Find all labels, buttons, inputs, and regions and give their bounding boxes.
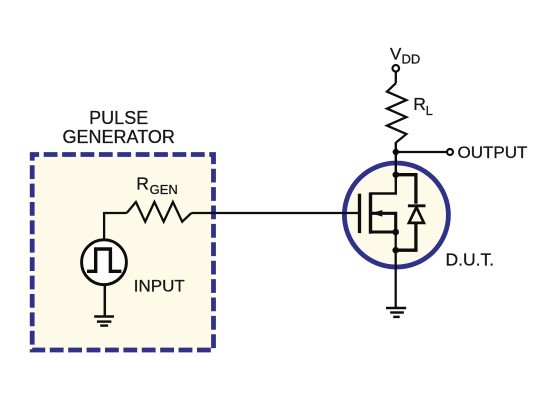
ground (pulse generator) (94, 285, 114, 325)
terminal VDD (393, 65, 400, 72)
transistor DUT gate bar (358, 194, 361, 233)
source lead (371, 230, 396, 233)
wire pulse source to resistor (104, 213, 127, 240)
resistor RGEN (127, 202, 192, 222)
diode cathode bar (408, 204, 426, 207)
wire RGEN to gate (191, 212, 358, 214)
svg-text:GENERATOR: GENERATOR (63, 127, 175, 147)
pulse source V1 (82, 240, 127, 285)
wire VDD to RL (395, 72, 397, 83)
svg-text:OUTPUT: OUTPUT (458, 143, 528, 162)
svg-text:V: V (390, 44, 402, 63)
body lead with arrow (372, 213, 396, 232)
wire RL to drain / node (371, 142, 396, 194)
wire to OUTPUT terminal (396, 151, 447, 153)
terminal OUTPUT (447, 149, 453, 155)
label PULSE GENERATOR (63, 108, 175, 147)
svg-text:INPUT: INPUT (134, 276, 185, 295)
label RL (413, 94, 433, 118)
svg-text:DD: DD (402, 51, 421, 66)
svg-text:R: R (136, 174, 149, 194)
node output junction (393, 149, 399, 155)
pulse waveform glyph (87, 249, 121, 271)
D.U.T. MOSFET circle (344, 163, 448, 267)
node diode return (392, 247, 399, 254)
svg-text:L: L (426, 103, 433, 118)
ground (DUT source) (386, 308, 406, 317)
svg-text:R: R (413, 94, 426, 114)
body diode branch wires (396, 175, 416, 204)
diode triangle (409, 207, 424, 223)
node drain (top) (393, 171, 400, 178)
wire source to ground (395, 232, 397, 308)
svg-text:PULSE: PULSE (89, 108, 148, 128)
svg-text:GEN: GEN (150, 182, 178, 197)
label VDD (390, 44, 420, 66)
label RGEN (136, 174, 178, 197)
pulse generator box (32, 155, 213, 351)
resistor RL (387, 83, 406, 142)
arrow (body, pointing to channel) (371, 210, 382, 217)
svg-text:D.U.T.: D.U.T. (446, 249, 495, 269)
node source join (392, 229, 399, 236)
transistor channel bar (369, 192, 372, 233)
